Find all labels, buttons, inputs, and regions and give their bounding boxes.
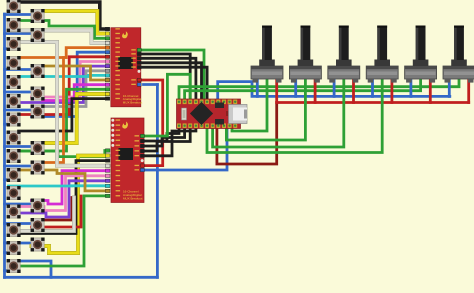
pushbutton S21 (right col)	[31, 141, 45, 155]
pushbutton S25 (right col)	[31, 238, 45, 252]
wire pro-micro GND to pot bus	[218, 82, 450, 101]
wire gnd stub row y248	[5, 251, 13, 254]
wire gnd jog S15	[12, 261, 51, 277]
pushbutton S15 (left col)	[7, 259, 21, 273]
potentiometer VR2	[289, 26, 321, 83]
wire orange riser S23	[43, 58, 67, 163]
wire red from S24	[32, 196, 82, 227]
wire mux2 S2 black	[144, 127, 190, 152]
wire pro-micro VCC maroon	[217, 103, 277, 165]
wire mux2 S3 black	[144, 127, 196, 156]
wire pot4 VCC stub red	[390, 79, 393, 103]
wire mux1 C7 pink	[32, 62, 108, 98]
wire pot3 GND stub blue	[333, 79, 336, 96]
wire mux1 C9 gray	[43, 71, 108, 107]
pushbutton S1 (left col)	[7, 0, 21, 13]
wire gnd stub row y230	[5, 242, 31, 245]
wire white from S22	[19, 198, 74, 232]
wire mux2 S0 black	[144, 127, 179, 142]
wire mux1 C2 green	[19, 21, 108, 39]
wire mux2 C7	[32, 156, 108, 253]
wire mux2 C8	[19, 161, 108, 234]
wire mux2 GND blue	[144, 127, 227, 171]
potentiometer VR4	[366, 26, 398, 83]
wire gnd stub row y44	[5, 47, 13, 50]
wire gnd stub row y211.5	[5, 222, 31, 225]
potentiometer VR5	[405, 26, 437, 83]
wire gnd stub row y175	[5, 178, 13, 181]
wire gnd stub row y137.5	[5, 145, 31, 148]
pushbutton S14 (left col)	[7, 241, 21, 255]
wire mux1 C0 black	[19, 2, 108, 29]
pushbutton S6 (left col)	[7, 94, 21, 108]
wire pot3 VCC stub red	[352, 79, 355, 103]
wire maroon from S24 top	[43, 198, 72, 221]
wire mux1 C10 cyan	[19, 75, 108, 76]
potentiometer VR6	[443, 26, 474, 83]
wire pot4 GND stub blue	[371, 79, 374, 96]
wire mux1 C5 blue	[32, 52, 108, 116]
wire mux2 C14 tan	[19, 170, 108, 191]
wire pot2 VCC stub red	[314, 79, 317, 103]
wire mux1 ctrl0 black	[141, 54, 190, 101]
wire mux1 C4 orange	[12, 48, 108, 58]
pushbutton S7 (left col)	[7, 113, 21, 127]
wire mux2 C12 purple	[19, 181, 108, 217]
wire mux1 C13 green	[19, 89, 108, 151]
pushbutton S18 (right col)	[31, 64, 45, 78]
wire mux1 C1 yellow	[43, 11, 108, 34]
wire mux1 C15 black	[19, 99, 108, 131]
wire gnd stub row y101	[5, 109, 31, 112]
pushbutton S11 (left col)	[7, 186, 21, 200]
wire mux2 SIG green	[144, 74, 190, 136]
pushbutton S20 (right col)	[31, 105, 45, 119]
svg-text:MUX Breakout: MUX Breakout	[123, 196, 143, 200]
pushbutton S17 (right col)	[31, 28, 45, 42]
wire pot1 wiper green	[232, 79, 267, 131]
wire ground bus bottom run	[5, 276, 158, 279]
pushbutton S8 (left col)	[7, 131, 21, 145]
wire pot6 VCC stub red	[467, 79, 470, 103]
wire analog green A	[179, 79, 459, 101]
wire mux1 C3 white	[9, 31, 108, 43]
wire mux1 C8 purple	[19, 66, 108, 102]
wire mux1 C12 magenta	[43, 85, 108, 101]
wire gnd stub row y266	[5, 269, 13, 272]
wire mux1 ctrl1 black	[141, 58, 196, 101]
potentiometer VR3	[328, 26, 360, 83]
wire analog green B	[185, 79, 421, 101]
wire pot1 VCC stub red	[275, 79, 278, 103]
wire pot4 wiper green	[207, 79, 382, 153]
svg-text:MUX Breakout: MUX Breakout	[123, 101, 143, 105]
wire pot5 GND stub blue	[409, 79, 412, 96]
wire mux1 GND to bus	[144, 83, 158, 86]
pushbutton S10 (left col)	[7, 168, 21, 182]
wire mux2 C15	[9, 196, 108, 266]
wire mux2 C6 green	[19, 151, 108, 157]
pushbutton S24 (right col)	[31, 218, 45, 232]
wire pot1 GND stub blue	[256, 79, 259, 96]
wire gnd stub row y82	[5, 91, 31, 94]
wire mux1 C11 tan	[43, 66, 108, 80]
wire mux1 C6 red	[19, 57, 108, 115]
wire mux1 SIG green	[141, 50, 204, 101]
wire gnd stub row y25	[5, 32, 31, 35]
wire gnd stub row y156	[5, 165, 31, 168]
potentiometer VR1	[251, 26, 283, 83]
pushbutton S19 (right col)	[31, 87, 45, 101]
wire ground bus vertical	[3, 14, 6, 277]
wire mux2 C10 magenta	[32, 171, 108, 204]
pushbutton S16 (right col)	[31, 9, 45, 23]
wire mux1 ctrl3 black	[141, 67, 207, 101]
pushbutton S3 (left col)	[7, 37, 21, 51]
multiplexer U1	[105, 27, 142, 107]
wire pot2 wiper green	[226, 79, 305, 140]
wire mux2 C13	[9, 184, 108, 187]
wire VCC bus	[277, 101, 469, 104]
wire gnd stub row y193	[5, 203, 31, 206]
wire pot2 GND stub blue	[294, 79, 297, 96]
pushbutton S12 (left col)	[7, 205, 21, 219]
pushbutton S2 (left col)	[7, 18, 21, 32]
wire pot6 GND stub blue	[448, 79, 451, 96]
pushbutton S9 (left col)	[7, 149, 21, 163]
wire gnd stub row y119.5	[5, 123, 13, 126]
multiplexer U2	[105, 118, 144, 203]
wire mux1 ctrl2 black	[141, 63, 202, 101]
wire ground bus riser	[156, 85, 159, 278]
pushbutton S23 (right col)	[31, 199, 45, 213]
pushbutton S22 (right col)	[31, 161, 45, 175]
pushbutton S4 (left col)	[7, 56, 21, 70]
pushbutton S5 (left col)	[7, 75, 21, 89]
wire pot5 VCC stub red	[429, 79, 432, 103]
wire mux1 C14 yellow	[43, 94, 108, 143]
pushbutton S13 (left col)	[7, 223, 21, 237]
wire gnd stub row y63	[5, 68, 31, 71]
microcontroller U3 Pro Micro	[177, 99, 248, 129]
wire gnd stub row y6	[5, 13, 31, 16]
wire mux2 C9	[19, 42, 108, 166]
wire mux2 S1 black	[144, 127, 185, 147]
wire mux1 VCC red	[141, 80, 163, 166]
wire mux2 C11 pink	[19, 176, 108, 211]
wire pot3 wiper green	[213, 79, 344, 147]
